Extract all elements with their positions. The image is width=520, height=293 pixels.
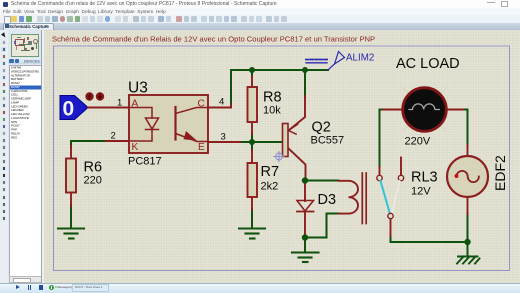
svg-text:E: E: [198, 142, 205, 153]
wire: bottom rail to EDF2 bottom: [391, 213, 468, 242]
wire: U3 pin 2 to R6 top: [71, 141, 106, 148]
ground (R6): [58, 229, 84, 239]
relay contact RL3 (switch): [379, 167, 381, 175]
logicstate toggle down button: [96, 92, 104, 100]
svg-text:1: 1: [117, 98, 122, 109]
svg-text:AC LOAD: AC LOAD: [396, 56, 460, 72]
logicstate toggle up button: [85, 92, 93, 100]
logic state input (0) body: [60, 96, 88, 120]
svg-text:R8: R8: [263, 90, 282, 106]
ground (R7): [239, 229, 265, 239]
wire: lamp left to relay contact common: [380, 110, 384, 168]
resistor R8: [251, 76, 253, 88]
opto-coupler U3 PC817 body: [129, 95, 208, 153]
resistor R6: [70, 146, 72, 159]
wire: relay coil bottom return to D3 cathode node: [305, 214, 339, 238]
junction node: R8 top / supply rail: [249, 67, 255, 73]
svg-text:220V: 220V: [405, 136, 431, 148]
svg-text:Q2: Q2: [312, 120, 331, 136]
svg-text:R7: R7: [261, 164, 280, 180]
svg-text:10k: 10k: [263, 105, 281, 117]
U3 pin 2 (K) lead: [106, 140, 129, 142]
schematic canvas: [44, 30, 520, 283]
wire: contact pole to bottom rail: [390, 235, 392, 242]
U3 internal phototransistor: [174, 107, 176, 140]
wire: U3 pin 4 riser and top supply rail: [231, 70, 328, 105]
power terminal ALIM2: [328, 64, 335, 71]
transistor Q2: [289, 96, 306, 131]
wire: R6 bottom to ground: [70, 205, 72, 228]
svg-text:ALIM2: ALIM2: [346, 53, 374, 64]
wire: R8 bottom to base node: [251, 133, 253, 142]
svg-text:2k2: 2k2: [261, 181, 279, 193]
svg-text:RL3: RL3: [411, 170, 438, 186]
wire: supply rail down to Q2 emitter: [304, 70, 306, 97]
svg-text:U3: U3: [128, 80, 148, 97]
wire: EDF2 bottom node to ground: [467, 242, 469, 256]
svg-text:2: 2: [111, 131, 116, 142]
wire: D3 cathode node to ground: [304, 238, 306, 253]
U3 pin 4 (C) lead: [208, 107, 231, 109]
svg-text:EDF2: EDF2: [492, 155, 508, 191]
svg-text:R6: R6: [84, 160, 103, 176]
relay coil RL3: [339, 181, 359, 214]
diode D3: [304, 182, 306, 201]
U3 internal LED: [129, 108, 152, 119]
origin marker (crosshair): [274, 152, 284, 162]
svg-text:D3: D3: [318, 192, 337, 208]
ground (D3): [292, 253, 319, 263]
sheet border: [54, 46, 510, 271]
svg-text:Schéma de Commande d'un Relais: Schéma de Commande d'un Relais de 12V av…: [52, 35, 375, 44]
junction node: bottom rail / EDF2 / ground: [464, 239, 470, 245]
svg-text:220: 220: [84, 175, 102, 187]
svg-text:BC557: BC557: [311, 135, 345, 147]
wire: Q2 collector node to relay coil RL3 top: [305, 180, 339, 182]
resistor R7: [251, 150, 253, 164]
svg-text:3: 3: [221, 132, 226, 143]
AC source EDF2 (alternator): [467, 145, 469, 156]
junction node: D3 cathode / coil return / ground: [302, 234, 308, 240]
U3 pin 3 (E) lead: [208, 141, 240, 143]
wire: base node to R7 top: [251, 142, 253, 151]
svg-text:0: 0: [63, 98, 75, 121]
wire: R8 top stub: [251, 70, 253, 77]
ground (EDF2, hatched): [457, 257, 480, 264]
junction node: supply rail / Q2 emitter branch: [302, 67, 308, 73]
svg-text:PC817: PC817: [128, 156, 162, 168]
logicstate pin wire: [88, 107, 129, 109]
svg-text:K: K: [132, 142, 139, 153]
wire: U3 pin 3 to Q2 base: [239, 141, 283, 143]
wire: lamp right to EDF2 top: [462, 110, 468, 147]
junction node: Q2 base / R8 / R7: [249, 139, 255, 145]
wire: R7 bottom to ground: [251, 209, 253, 228]
junction node: Q2 collector / D3 anode / coil top: [302, 177, 308, 183]
svg-text:12V: 12V: [411, 186, 431, 198]
svg-text:4: 4: [219, 97, 224, 108]
